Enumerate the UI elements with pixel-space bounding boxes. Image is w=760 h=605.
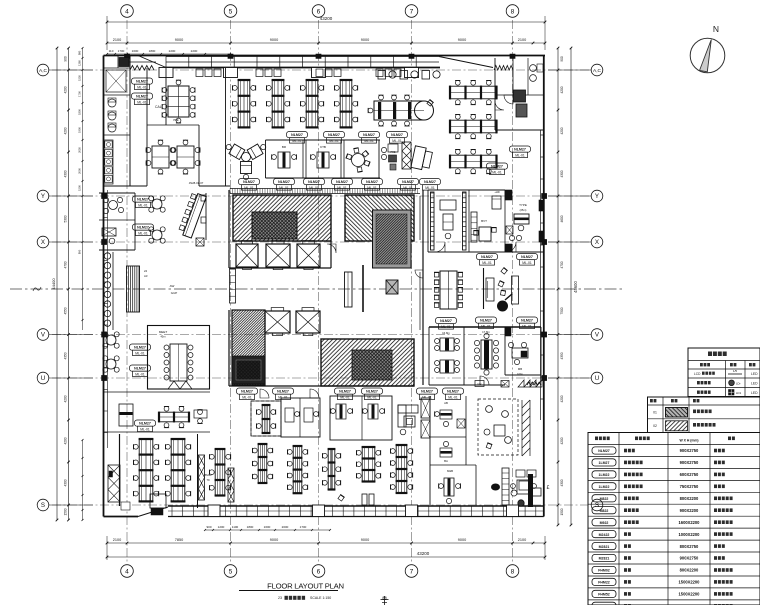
core hatch A dark crosshatch inset	[252, 212, 297, 239]
meeting room wall	[165, 68, 167, 125]
X-brace column 2	[228, 468, 234, 502]
room 17.8m conference table	[481, 340, 492, 369]
workstation cluster T7 horizontal	[450, 155, 497, 168]
svg-text:43200: 43200	[417, 551, 430, 556]
svg-text:4300: 4300	[64, 170, 68, 177]
svg-text:LED: LED	[751, 391, 758, 395]
svg-text:Y: Y	[595, 193, 599, 200]
svg-text:X: X	[595, 239, 599, 246]
room AB desk	[440, 410, 452, 419]
left facade inner line	[107, 190, 109, 330]
elevation marker	[381, 599, 389, 601]
core hatch C dark base	[232, 356, 265, 384]
core gray duct block	[373, 210, 412, 268]
svg-text:9000: 9000	[458, 38, 466, 42]
double tag right	[398, 179, 419, 185]
svg-text:NLM27: NLM27	[136, 80, 148, 84]
top fine dimension line	[107, 53, 230, 55]
right zone walls	[427, 190, 429, 252]
square table pair A	[152, 146, 169, 168]
top band diagonal right	[439, 57, 493, 68]
main horizontal centerline	[10, 288, 624, 290]
svg-text:2200: 2200	[191, 49, 198, 53]
svg-text:TYPE: TYPE	[519, 203, 527, 207]
svg-text:NLM27: NLM27	[336, 180, 348, 184]
svg-text:ML-01: ML-01	[329, 139, 339, 143]
grid bubbles top 4-8	[121, 5, 134, 18]
grid bubble S overlay	[591, 499, 603, 511]
svg-text:U: U	[41, 375, 45, 382]
right major dimension line	[557, 48, 559, 525]
svg-text:ML-01: ML-01	[138, 231, 148, 235]
svg-text:1200: 1200	[218, 525, 225, 529]
svg-text:2100: 2100	[113, 38, 121, 42]
svg-text:NLM27: NLM27	[521, 319, 533, 323]
svg-text:1900: 1900	[78, 127, 82, 133]
left offices walls y193-250	[99, 192, 135, 194]
svg-text:79: 79	[206, 478, 210, 482]
tag row right zone y317	[476, 317, 497, 323]
svg-text:ML-01: ML-01	[482, 261, 492, 265]
grid bubbles left AC Y X V U S	[37, 64, 49, 76]
svg-text:ML-01: ML-01	[367, 186, 377, 190]
AHU dark block 1	[514, 90, 526, 102]
svg-text:M2422: M2422	[599, 533, 610, 537]
svg-text:S: S	[595, 502, 599, 509]
svg-text:M922: M922	[600, 521, 609, 525]
svg-text:ML-01: ML-01	[422, 395, 432, 399]
svg-text:980: 980	[78, 50, 82, 55]
svg-text:U: U	[595, 375, 599, 382]
svg-text:NLM27: NLM27	[278, 180, 290, 184]
svg-text:44400: 44400	[51, 278, 56, 290]
svg-text:NLM27: NLM27	[514, 148, 526, 152]
core tick band top	[230, 188, 420, 190]
svg-text:1000X2200: 1000X2200	[679, 532, 701, 537]
svg-text:1LM22: 1LM22	[599, 473, 610, 477]
svg-text:1700: 1700	[118, 49, 125, 53]
square table pair B	[177, 146, 194, 168]
meeting room lower walls	[148, 326, 210, 390]
svg-text:ML-01: ML-01	[337, 186, 347, 190]
north arrow compass	[690, 38, 725, 73]
svg-text:800X2200: 800X2200	[680, 496, 699, 501]
svg-text:8: 8	[511, 568, 515, 575]
Y-shaped triple workstation	[242, 153, 251, 162]
svg-text:FHM52: FHM52	[598, 593, 610, 597]
reception angled counter	[178, 192, 207, 238]
tag capsule top-right b	[487, 163, 508, 169]
left lower round tables	[106, 335, 116, 345]
right wing middle rooms walls	[429, 326, 541, 328]
office 1 desk	[278, 152, 290, 168]
console bench	[512, 276, 519, 304]
top-left room door X mark	[106, 70, 126, 92]
svg-text:4300: 4300	[560, 479, 564, 486]
svg-text:NLM27: NLM27	[277, 390, 289, 394]
svg-text:NLM27: NLM27	[598, 449, 610, 453]
svg-text:NLM27: NLM27	[447, 390, 459, 394]
svg-text:1800: 1800	[247, 525, 254, 529]
svg-text:A,C: A,C	[39, 68, 48, 74]
round table 4 chairs B	[152, 230, 162, 240]
svg-text:NLM27: NLM27	[521, 255, 533, 259]
svg-text:ML-01: ML-01	[279, 186, 289, 190]
elevator E4	[265, 311, 290, 333]
svg-text:1260: 1260	[78, 60, 82, 66]
dashed training room	[251, 401, 281, 436]
svg-text:4: 4	[125, 568, 129, 575]
workstation cluster T3	[306, 80, 318, 127]
svg-text:4200: 4200	[560, 437, 564, 444]
top band diagonal left	[138, 56, 166, 68]
workstation cluster T6 horizontal	[450, 120, 497, 133]
svg-text:110: 110	[109, 49, 114, 53]
svg-text:+HD: +HD	[494, 190, 499, 194]
square box bottom-left	[150, 494, 166, 508]
svg-text:ML-01: ML-01	[392, 139, 402, 143]
svg-text:NLM27: NLM27	[480, 319, 492, 323]
top major dimension line	[107, 42, 545, 44]
training room bench	[262, 405, 270, 433]
large meeting table 12 seats	[168, 86, 189, 117]
wall pilaster columns	[102, 193, 107, 198]
svg-text:M&B: M&B	[447, 469, 453, 473]
svg-text:6: 6	[317, 568, 321, 575]
blob sofa	[491, 484, 500, 491]
open office partition wall	[225, 68, 227, 186]
svg-text:7: 7	[410, 8, 414, 15]
workstation cluster T5 horizontal	[450, 86, 497, 99]
svg-text:LCD: LCD	[694, 372, 701, 376]
svg-text:MB: MB	[518, 367, 522, 371]
workstation cluster T4	[340, 80, 352, 127]
bottom right rooms walls	[429, 396, 431, 505]
svg-text:KTB: KTB	[320, 145, 326, 149]
svg-text:AB: AB	[444, 401, 448, 405]
svg-text:6: 6	[317, 8, 321, 15]
svg-text:NLM27: NLM27	[308, 180, 320, 184]
TV screen wall	[483, 268, 485, 309]
tag capsule top-right	[510, 146, 531, 152]
svg-text:PPS: PPS	[477, 383, 482, 386]
lounge chair row below band	[378, 71, 386, 80]
tag row right zone y253	[477, 254, 498, 260]
exec office dark wall	[528, 474, 533, 507]
svg-text:NLM27: NLM27	[139, 422, 151, 426]
double lectern	[362, 494, 367, 505]
small cluster BL3	[215, 449, 225, 496]
svg-text:9000: 9000	[458, 538, 466, 542]
PRE dark room rects	[389, 155, 397, 162]
offices desks	[285, 408, 294, 422]
svg-text:MEET: MEET	[159, 330, 168, 334]
bottom curtain-wall band with mullions	[168, 505, 544, 507]
black door block right wing	[505, 327, 511, 336]
svg-text:4200: 4200	[64, 437, 68, 444]
svg-text:01: 01	[653, 411, 657, 415]
pantry strip	[502, 468, 509, 505]
booth desks	[440, 200, 456, 210]
svg-text:JN28-0L-07: JN28-0L-07	[189, 181, 204, 185]
room BVT upper bed	[492, 196, 501, 209]
svg-text:1/5: 1/5	[733, 369, 738, 373]
svg-text:9000: 9000	[361, 38, 369, 42]
svg-text:600X2750: 600X2750	[680, 472, 699, 477]
svg-text:8: 8	[511, 8, 515, 15]
svg-text:FHM22: FHM22	[598, 581, 610, 585]
svg-text:9000: 9000	[270, 538, 278, 542]
svg-text:M2821: M2821	[599, 557, 610, 561]
round table 4 chairs A	[152, 199, 162, 209]
svg-text:NLM27: NLM27	[421, 390, 433, 394]
svg-text:800: 800	[78, 249, 82, 254]
svg-text:BVT: BVT	[481, 219, 487, 223]
room 16m two square tables	[440, 338, 454, 351]
svg-text:7850: 7850	[175, 538, 183, 542]
right facade band with sill marks	[540, 130, 542, 420]
grid bubbles bottom 4-8	[121, 565, 134, 578]
svg-text:NLM27: NLM27	[424, 180, 436, 184]
svg-text:4200: 4200	[560, 127, 564, 134]
svg-text:NLM27: NLM27	[243, 180, 255, 184]
svg-text:SCALE 1:150: SCALE 1:150	[310, 596, 331, 600]
svg-text:NLM27: NLM27	[491, 165, 503, 169]
svg-text:4700: 4700	[560, 261, 564, 268]
svg-text:CAL: CAL	[155, 105, 162, 109]
svg-text:4: 4	[125, 8, 129, 15]
svg-text:2050: 2050	[78, 147, 82, 153]
svg-text:ML-01: ML-01	[135, 372, 145, 376]
outer wall bottom-left segment	[104, 516, 139, 518]
offices x330-392 walls	[330, 396, 392, 440]
outer wall right	[543, 56, 545, 517]
svg-text:900: 900	[560, 56, 564, 62]
svg-text:ML-01: ML-01	[425, 186, 435, 190]
svg-text:NLM27: NLM27	[366, 390, 378, 394]
bottom band column boxes	[208, 505, 220, 517]
room MB desk	[444, 478, 454, 496]
left major dimension line	[68, 48, 70, 520]
svg-text:A,C: A,C	[593, 68, 602, 74]
outer wall top	[104, 55, 546, 57]
core bottom wall	[228, 310, 230, 386]
svg-text:4350: 4350	[64, 352, 68, 359]
workstation cluster T1	[238, 80, 250, 127]
bottom fine dimension line	[205, 529, 330, 531]
svg-text:2200: 2200	[169, 49, 176, 53]
WC fixtures	[108, 99, 116, 107]
svg-text:ML-01: ML-01	[244, 186, 254, 190]
svg-text:M2821: M2821	[599, 545, 610, 549]
top-right stair zigzag	[494, 66, 513, 71]
elevator E5	[296, 311, 320, 333]
offices x281-320 walls	[281, 398, 320, 437]
elevator lobby walls	[228, 190, 230, 268]
svg-text:9000: 9000	[270, 38, 278, 42]
svg-text:1100: 1100	[232, 525, 239, 529]
office 2 desk	[317, 152, 329, 168]
left wing corridor wall	[119, 434, 121, 506]
svg-text:02: 02	[653, 424, 657, 428]
dark block small	[109, 471, 113, 477]
lounge plants and chairs	[486, 406, 493, 413]
lounge sofa angled	[411, 146, 433, 171]
top-right WC fixtures	[530, 65, 537, 72]
svg-text:1600: 1600	[132, 49, 139, 53]
svg-text:4550: 4550	[64, 307, 68, 314]
svg-text:ML-01: ML-01	[448, 395, 458, 399]
svg-text:4200: 4200	[64, 127, 68, 134]
door tag row upper offices	[287, 132, 308, 138]
svg-text:N: N	[713, 24, 719, 34]
black door block B	[505, 244, 512, 252]
svg-text:1700: 1700	[300, 525, 307, 529]
booth room combs	[431, 192, 435, 250]
top-left dark cabinet	[119, 58, 129, 67]
top-right rooms walls	[494, 58, 496, 130]
svg-text:1500: 1500	[78, 185, 82, 191]
workstation cluster BC5	[396, 445, 407, 493]
left office round table 3 chairs	[109, 201, 118, 210]
meeting room double door V	[168, 381, 192, 389]
diamond chairs	[501, 267, 508, 274]
svg-text:ML-01: ML-01	[242, 395, 252, 399]
corridor fixtures	[381, 147, 386, 152]
workstation cluster BL2	[171, 439, 185, 501]
X chair bottom	[457, 419, 465, 428]
double door X panel	[421, 398, 430, 418]
svg-text:ML-01: ML-01	[309, 186, 319, 190]
workstation cluster BC2	[293, 446, 302, 493]
svg-text:GUP: GUP	[171, 291, 178, 295]
bottom wall marks PPS	[475, 381, 484, 387]
svg-text:4700: 4700	[64, 261, 68, 268]
lobby feature wall	[345, 272, 353, 307]
svg-text:900X2750: 900X2750	[680, 460, 699, 465]
svg-text:24: 24	[144, 269, 148, 273]
bottom major dimension line	[107, 542, 545, 544]
wall below WC	[103, 186, 105, 190]
svg-text:£: £	[547, 485, 550, 491]
room BVT table	[479, 227, 491, 241]
office row walls	[266, 139, 381, 141]
svg-text:1800: 1800	[149, 49, 156, 53]
svg-text:16.8m: 16.8m	[442, 331, 450, 335]
reception side wall	[205, 193, 207, 240]
svg-text:1500: 1500	[64, 508, 68, 515]
svg-text:X: X	[41, 239, 45, 246]
svg-text:9000: 9000	[361, 538, 369, 542]
svg-text:1500X2200: 1500X2200	[679, 592, 701, 597]
svg-text:1800: 1800	[78, 109, 82, 115]
svg-text:7: 7	[410, 568, 414, 575]
svg-text:1500X2200: 1500X2200	[679, 580, 701, 585]
svg-text:NLM27: NLM27	[241, 390, 253, 394]
svg-text:ML-01: ML-01	[278, 395, 288, 399]
svg-text:1500: 1500	[560, 508, 564, 515]
left lower wing walls	[104, 391, 211, 393]
core hatch A floor	[233, 195, 331, 241]
svg-text:NLM27: NLM27	[134, 346, 146, 350]
svg-text:NLM27: NLM27	[137, 198, 149, 202]
svg-text:ML-01: ML-01	[137, 100, 147, 104]
tag capsules left lower	[130, 344, 151, 350]
grid bubbles right	[591, 64, 603, 76]
core hatch D crosshatch inset	[352, 350, 392, 380]
svg-text:NLM27: NLM27	[137, 226, 149, 230]
tag capsule stair room	[132, 78, 153, 84]
bottom-left wall vertical	[197, 434, 199, 508]
core hatch B floor	[345, 195, 414, 241]
tag capsule left mid	[133, 196, 154, 202]
bar counter line	[112, 252, 114, 330]
svg-text:900: 900	[64, 56, 68, 62]
open conference table 10 seats	[440, 271, 457, 309]
svg-text:NLM27: NLM27	[134, 367, 146, 371]
tag capsule hot desk	[135, 420, 156, 426]
svg-text:5: 5	[229, 8, 233, 15]
svg-text:FLOOR LAYOUT PLAN: FLOOR LAYOUT PLAN	[267, 582, 344, 591]
svg-text:4600: 4600	[560, 215, 564, 222]
svg-text:1700: 1700	[78, 91, 82, 97]
svg-text:ML-01: ML-01	[403, 186, 413, 190]
striped bench planter	[127, 266, 140, 312]
right wall door blocks	[539, 200, 544, 211]
locker strip core lobby	[230, 269, 236, 303]
bottom-left entrance diagonal	[138, 507, 168, 517]
svg-text:LD1: LD1	[736, 391, 742, 395]
tag capsule room 16m	[436, 318, 457, 324]
svg-text:4350: 4350	[560, 352, 564, 359]
svg-text:23: 23	[278, 596, 282, 600]
svg-text:ML-01: ML-01	[364, 139, 374, 143]
svg-text:1550: 1550	[78, 75, 82, 81]
svg-text:NLM27: NLM27	[440, 319, 452, 323]
svg-text:(25m): (25m)	[520, 208, 527, 212]
office desk D2	[368, 404, 378, 419]
svg-text:4200: 4200	[560, 86, 564, 93]
small shaft box with X	[386, 280, 398, 294]
reception X box	[196, 238, 204, 246]
shelf with diagonal marks	[108, 465, 120, 502]
svg-text:5300: 5300	[64, 215, 68, 222]
corridor arcs y385	[260, 389, 269, 398]
svg-text:1LM22: 1LM22	[599, 485, 610, 489]
pantry room table	[517, 480, 530, 494]
AHU dark block 2	[516, 104, 527, 117]
svg-text:BA: BA	[444, 459, 448, 463]
svg-text:ML-01: ML-01	[140, 427, 150, 431]
svg-text:2100: 2100	[518, 38, 526, 42]
svg-text:1600X2200: 1600X2200	[679, 520, 701, 525]
svg-text:NLM27: NLM27	[136, 95, 148, 99]
svg-text:4200: 4200	[64, 395, 68, 402]
svg-text:900X2750: 900X2750	[680, 556, 699, 561]
svg-text:17.8m: 17.8m	[482, 330, 490, 334]
cabinet strip with squares	[104, 140, 113, 184]
svg-text:ML-01: ML-01	[137, 85, 147, 89]
room 17.8m door arc	[480, 376, 489, 385]
svg-text:4300: 4300	[64, 479, 68, 486]
svg-text:ML-01: ML-01	[135, 351, 145, 355]
svg-text:NLM27: NLM27	[339, 390, 351, 394]
top overall dimension line 43200	[107, 21, 545, 23]
svg-text:S: S	[41, 502, 45, 509]
svg-text:9.8m: 9.8m	[517, 372, 523, 376]
svg-text:AW: AW	[170, 284, 175, 288]
top-left service rooms walls	[129, 56, 131, 186]
